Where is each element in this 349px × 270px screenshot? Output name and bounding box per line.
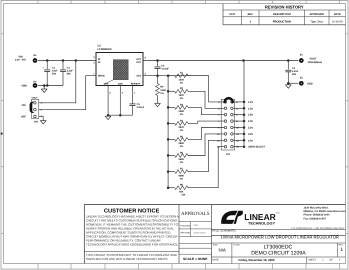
svg-text:SUPPLIED FOR USE WITH LINEAR T: SUPPLIED FOR USE WITH LINEAR TECHNOLOGY … [86, 257, 168, 261]
svg-text:2.0V: 2.0V [248, 120, 253, 123]
svg-text:VIN: VIN [18, 55, 22, 58]
svg-text:GND: GND [21, 85, 27, 88]
svg-text:REVISION HISTORY: REVISION HISTORY [265, 5, 304, 10]
svg-text:OF: OF [329, 259, 333, 262]
svg-text:TIGER ZHOU: TIGER ZHOU [193, 231, 206, 234]
svg-text:1: 1 [340, 247, 343, 253]
svg-text:249K: 249K [179, 110, 185, 113]
svg-text:1%: 1% [180, 177, 183, 180]
svg-text:DATE:: DATE: [212, 259, 219, 262]
svg-text:1%: 1% [180, 97, 183, 100]
svg-text:1.5V: 1.5V [248, 107, 253, 110]
svg-text:SCB: SCB [193, 224, 198, 227]
svg-text:LINEAR: LINEAR [244, 212, 276, 222]
svg-text:N/A: N/A [219, 248, 226, 253]
svg-text:100mA MICROPOWER LOW DROPOUT L: 100mA MICROPOWER LOW DROPOUT LINEAR REGU… [220, 235, 339, 240]
svg-text:APPROVALS: APPROVALS [181, 211, 210, 217]
svg-text:DEMO CIRCUIT 1209A: DEMO CIRCUIT 1209A [251, 251, 306, 257]
svg-text:287K: 287K [179, 126, 185, 129]
svg-text:SCALE = NONE: SCALE = NONE [183, 257, 208, 261]
svg-text:IC NO.: IC NO. [234, 244, 241, 247]
svg-text:TITLE: SCHEMATIC: TITLE: SCHEMATIC [212, 230, 236, 233]
svg-text:OUT: OUT [136, 58, 141, 61]
svg-text:10-20-09: 10-20-09 [332, 21, 343, 24]
svg-text:0.01uF: 0.01uF [137, 106, 145, 109]
svg-text:1%: 1% [180, 129, 183, 132]
svg-text:SHDN: SHDN [98, 75, 105, 78]
svg-text:USER SELECT: USER SELECT [248, 146, 266, 149]
svg-text:IN: IN [98, 61, 101, 64]
svg-text:APPROVED: APPROVED [309, 13, 324, 16]
svg-text:3.3V: 3.3V [248, 133, 253, 136]
svg-text:GND: GND [104, 83, 109, 86]
svg-text:Tiger Zhou: Tiger Zhou [310, 21, 323, 24]
svg-text:APP ENG.: APP ENG. [180, 232, 191, 235]
svg-text:1.2V: 1.2V [248, 101, 253, 104]
svg-text:OFF: OFF [21, 116, 26, 119]
svg-text:187K: 187K [179, 94, 185, 97]
svg-text:50K: 50K [179, 190, 184, 193]
svg-text:TM: TM [276, 211, 279, 214]
svg-text:REF/BYP: REF/BYP [131, 83, 141, 86]
svg-text:JP1: JP1 [226, 153, 231, 156]
svg-text:Fax: (408)434-0507: Fax: (408)434-0507 [304, 217, 327, 220]
svg-text:392K: 392K [179, 142, 185, 145]
svg-text:5.0V: 5.0V [248, 139, 253, 142]
svg-text:1%: 1% [180, 113, 183, 116]
svg-text:PCB DES.: PCB DES. [180, 224, 191, 227]
svg-text:909K: 909K [179, 174, 185, 177]
svg-text:OUT: OUT [136, 61, 141, 64]
svg-text:1%: 1% [180, 81, 183, 84]
svg-text:REV: REV [248, 13, 254, 16]
svg-text:LTC CONFIDENTIAL - FOR CUSTOME: LTC CONFIDENTIAL - FOR CUSTOMER USE ONLY [291, 227, 345, 230]
svg-text:Phone: (408)432-1900: Phone: (408)432-1900 [304, 214, 331, 217]
svg-text:VOUT: VOUT [31, 97, 38, 100]
svg-text:ADJ: ADJ [136, 75, 141, 78]
svg-text:ECO: ECO [229, 13, 235, 16]
svg-text:Friday, December 18, 2009: Friday, December 18, 2009 [238, 258, 274, 262]
svg-text:PRODUCTION: PRODUCTION [273, 21, 291, 24]
svg-text:50V: 50V [292, 73, 297, 76]
svg-text:50V: 50V [67, 73, 72, 76]
svg-text:562K: 562K [179, 158, 185, 161]
svg-text:VOUT: VOUT [310, 58, 317, 61]
svg-text:GND: GND [307, 83, 313, 86]
svg-text:2.5V: 2.5V [248, 127, 253, 130]
svg-text:GND: GND [118, 83, 123, 86]
svg-text:IN: IN [98, 58, 101, 61]
svg-text:1630 McCarthy Blvd.: 1630 McCarthy Blvd. [304, 206, 329, 209]
svg-text:0.01uF: 0.01uF [161, 67, 169, 70]
svg-text:1.8V: 1.8V [248, 114, 253, 117]
svg-text:100mA(Max): 100mA(Max) [308, 61, 323, 64]
svg-text:DESCRIPTION: DESCRIPTION [273, 13, 291, 16]
svg-text:1%: 1% [180, 161, 183, 164]
svg-text:1%: 1% [180, 145, 183, 148]
svg-text:SHEET: SHEET [308, 259, 317, 262]
svg-text:DATE: DATE [334, 13, 341, 16]
svg-text:50V: 50V [52, 73, 57, 76]
svg-text:TECHNOLOGY APPLICATIONS ENGINE: TECHNOLOGY APPLICATIONS ENGINEERING FOR … [86, 242, 179, 246]
svg-text:TECHNOLOGY: TECHNOLOGY [248, 222, 276, 226]
svg-text:124K: 124K [179, 78, 185, 81]
svg-text:JP2: JP2 [34, 120, 39, 123]
svg-text:ON: ON [22, 104, 26, 107]
svg-text:2.3V - 45V: 2.3V - 45V [15, 59, 26, 62]
svg-text:SIZE: SIZE [213, 244, 218, 247]
svg-text:LT3060EDC: LT3060EDC [98, 48, 112, 51]
svg-text:Milpitas, CA 95035 www.linea: Milpitas, CA 95035 www.linear.com [304, 210, 347, 213]
